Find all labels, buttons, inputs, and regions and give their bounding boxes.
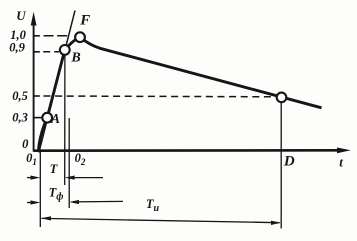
svg-text:U: U: [16, 8, 26, 23]
svg-text:Tи: Tи: [146, 197, 160, 214]
svg-text:02: 02: [75, 151, 86, 167]
y axis: [33, 22, 35, 152]
T dimension right arrow: [69, 177, 103, 179]
point B circle: [60, 45, 70, 55]
tangent line through A and B extended up to F level: [39, 11, 75, 153]
tick 1.0: [34, 35, 40, 37]
T_f dimension left arrow: [27, 202, 36, 204]
pulse top and decay (thick) through F and D: [65, 37, 322, 108]
x axis: [34, 149, 338, 152]
dashed level 0.9: [43, 51, 59, 53]
T_i right arrowhead: [271, 221, 281, 225]
svg-text:T: T: [50, 162, 59, 176]
T_f dimension right arrow: [74, 200, 124, 203]
svg-text:0,5: 0,5: [12, 89, 28, 103]
svg-text:01: 01: [26, 151, 37, 167]
x axis arrowhead: [337, 148, 351, 154]
tick 0.9: [34, 51, 40, 53]
svg-text:0,9: 0,9: [9, 41, 25, 55]
point D circle: [277, 93, 287, 103]
tick 0.5: [34, 95, 40, 97]
dashed level 1.0: [44, 35, 68, 37]
svg-text:0,3: 0,3: [12, 111, 28, 125]
T_i dimension line: [42, 218, 280, 222]
svg-text:A: A: [50, 111, 60, 126]
dashed level 0.5: [44, 95, 277, 98]
point F circle: [75, 32, 85, 42]
y axis arrowhead: [31, 12, 37, 26]
extension line below point D: [280, 103, 282, 229]
tick 0.3: [34, 117, 42, 119]
extension line below point B: [64, 55, 66, 185]
svg-text:t: t: [339, 155, 343, 170]
svg-text:D: D: [283, 154, 295, 170]
svg-text:B: B: [70, 51, 80, 66]
svg-text:F: F: [79, 13, 90, 29]
extension line below origin 0_1: [39, 151, 41, 227]
pulse front (thick): origin through A to B: [39, 50, 65, 152]
point A circle: [42, 113, 52, 123]
svg-text:Tф: Tф: [49, 185, 64, 202]
T_i left arrowhead: [41, 216, 51, 220]
T dimension left arrow: [27, 177, 36, 179]
svg-text:0: 0: [22, 137, 29, 151]
extension line 0_2: [68, 118, 70, 208]
